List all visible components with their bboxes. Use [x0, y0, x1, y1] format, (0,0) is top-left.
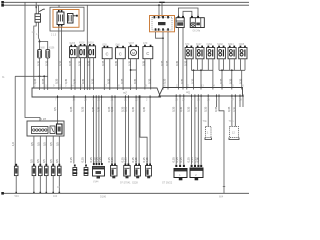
coil S side — [68, 14, 74, 24]
svg-text:0,35: 0,35 — [148, 78, 152, 84]
coil stub 6 — [218, 59, 220, 71]
arrow on wire — [35, 7, 37, 10]
svg-text:0,35: 0,35 — [87, 60, 91, 66]
svg-text:0,35: 0,35 — [114, 60, 118, 66]
wire bus15 drop x88 — [86, 5, 88, 90]
svg-text:0,5: 0,5 — [36, 159, 40, 163]
wire S2 down — [33, 176, 35, 194]
svg-text:C: C — [106, 52, 109, 57]
svg-text:0,35: 0,35 — [81, 157, 85, 163]
wire drop to J — [161, 2, 163, 17]
terminal 30 — [1, 1, 4, 4]
control unit dashed — [152, 17, 172, 30]
wire left drop — [14, 76, 16, 166]
wire bus2 drop b — [231, 70, 233, 89]
svg-text:12: 12 — [232, 131, 236, 135]
svg-text:0,35: 0,35 — [203, 106, 207, 112]
relay in A97 — [57, 124, 63, 134]
svg-text:0,35: 0,35 — [187, 106, 191, 112]
svg-text:0,35: 0,35 — [131, 106, 135, 112]
connector strip in A97 — [32, 127, 49, 134]
wire below fuse to injector dot — [38, 22, 41, 41]
wire plug to B1 — [73, 95, 75, 163]
sensor B3 — [93, 167, 105, 177]
svg-text:0,35: 0,35 — [33, 78, 37, 84]
svg-text:0,35: 0,35 — [69, 157, 73, 163]
svg-text:0,35: 0,35 — [77, 60, 81, 66]
bus 30 (upper supply rail) — [2, 1, 249, 3]
wire A97 out 1 — [33, 136, 35, 166]
svg-text:0,35: 0,35 — [45, 60, 49, 66]
wire fuse feed right — [38, 5, 40, 14]
wire G28 b — [109, 59, 111, 90]
wires plug to B4 — [111, 95, 113, 163]
node bus1 a — [193, 69, 195, 71]
wire G28 a — [103, 59, 105, 90]
svg-text:0,5: 0,5 — [53, 107, 57, 111]
svg-text:G79: G79 — [143, 43, 148, 45]
wire fuse feed left — [35, 2, 37, 14]
svg-text:97-27041 S228: 97-27041 S228 — [120, 182, 138, 185]
label J — [158, 22, 166, 25]
connector T3b — [230, 127, 239, 138]
svg-text:0,35: 0,35 — [41, 78, 45, 84]
wire drop to J 2 — [158, 5, 160, 17]
wire coil1 left long — [186, 59, 188, 90]
svg-text:0,35: 0,35 — [91, 106, 95, 112]
wire bus2 drop c — [241, 70, 243, 89]
wire plug to T3a — [207, 94, 209, 126]
ignition coil N127 — [196, 48, 204, 59]
svg-text:0,35: 0,35 — [142, 60, 146, 66]
svg-text:0,35: 0,35 — [163, 78, 167, 84]
wire plug to A97 relay — [57, 95, 59, 124]
ignition coil N292 — [217, 48, 225, 59]
svg-text:0,35: 0,35 — [184, 60, 188, 66]
wire A97 out 2 — [39, 136, 41, 166]
sensor G40 — [115, 48, 125, 59]
node rail a — [39, 75, 41, 77]
wire S1 down — [15, 176, 17, 194]
stub pair a — [216, 94, 218, 107]
wire rail drop — [43, 76, 45, 90]
wire link outer — [178, 8, 198, 14]
wire V157 bridge — [131, 69, 137, 71]
frame orange J623 — [150, 16, 175, 32]
svg-text:≡ξ: ≡ξ — [186, 91, 190, 95]
valve N316 — [88, 46, 95, 58]
fuse S — [35, 14, 41, 22]
coil stub 8 — [229, 59, 231, 71]
pin stubs J271 — [58, 10, 60, 12]
wire from relay down a — [58, 27, 60, 90]
svg-text:0,35: 0,35 — [107, 78, 111, 84]
svg-text:0,35: 0,35 — [81, 78, 85, 84]
svg-text:N156: N156 — [49, 48, 55, 50]
svg-text:0,35: 0,35 — [175, 60, 179, 66]
fuse S1 bottom — [14, 166, 18, 175]
plug B2 — [84, 168, 88, 176]
svg-text:0,35: 0,35 — [110, 106, 114, 112]
injector N80 — [38, 50, 42, 58]
wire A97 out 5 — [58, 136, 60, 166]
wires plug to G66 — [191, 94, 193, 164]
svg-text:0,5: 0,5 — [55, 142, 59, 146]
svg-text:0,35: 0,35 — [239, 78, 243, 84]
wire J17 to plug b — [182, 28, 184, 90]
rail 31 left — [15, 75, 48, 77]
wire bus1 drop a — [193, 70, 195, 89]
svg-text:0,35: 0,35 — [145, 157, 149, 163]
svg-text:0,35: 0,35 — [101, 60, 105, 66]
svg-text:0,35: 0,35 — [124, 157, 128, 163]
svg-text:M: M — [132, 51, 135, 55]
svg-text:N318: N318 — [79, 43, 85, 45]
coil stub 11 — [244, 59, 246, 71]
svg-text:0,5: 0,5 — [36, 142, 40, 146]
stub bus15 into box — [58, 5, 60, 7]
wires plug to G61 — [175, 94, 177, 164]
plug B1 — [73, 168, 77, 176]
valve N208 — [79, 46, 87, 58]
svg-text:0,5: 0,5 — [42, 159, 46, 163]
node bus2 a — [221, 69, 223, 71]
relay J271 — [57, 12, 64, 25]
svg-text:G28: G28 — [102, 44, 107, 46]
wire V157 a — [130, 59, 132, 90]
coil stub 10 — [239, 59, 241, 71]
svg-text:0,35: 0,35 — [142, 106, 146, 112]
svg-text:0,35: 0,35 — [64, 78, 68, 84]
wire injector2 return — [47, 58, 49, 90]
svg-text:0,5: 0,5 — [49, 159, 53, 163]
svg-text:T3m: T3m — [229, 120, 234, 123]
svg-text:C: C — [146, 51, 149, 56]
svg-text:0,35: 0,35 — [127, 60, 131, 66]
svg-text:0,35: 0,35 — [179, 157, 183, 163]
wire S3 down — [39, 176, 41, 194]
svg-text:0,35: 0,35 — [69, 106, 73, 112]
wire x25 join — [24, 75, 26, 77]
tick ground x224 — [223, 186, 225, 188]
svg-text:504: 504 — [15, 195, 20, 198]
svg-text:0,35: 0,35 — [58, 60, 62, 66]
svg-text:0,35: 0,35 — [55, 78, 59, 84]
node under J — [162, 37, 164, 39]
svg-text:0,35: 0,35 — [180, 78, 184, 84]
wire A97 feed — [25, 76, 40, 121]
svg-text:0,35: 0,35 — [90, 78, 94, 84]
wire J pin4 to plug — [167, 32, 169, 90]
svg-text:0,35: 0,35 — [68, 60, 72, 66]
wire below fuse to connector pin — [34, 22, 36, 88]
node rail b — [43, 75, 45, 77]
svg-text:0,35: 0,35 — [36, 60, 40, 66]
wire S4 down — [45, 176, 47, 194]
svg-text:0,35: 0,35 — [229, 78, 233, 84]
node injector feed — [39, 41, 41, 43]
knock sensor G66 — [190, 168, 203, 178]
relay J17 — [176, 18, 184, 28]
svg-text:0,35: 0,35 — [179, 106, 183, 112]
wire bus1 drop b — [200, 70, 202, 89]
node plug pins — [73, 96, 75, 98]
wire ground long — [219, 94, 224, 193]
svg-text:0,35: 0,35 — [190, 78, 194, 84]
svg-text:0,35: 0,35 — [73, 78, 77, 84]
terminal 15 — [1, 4, 4, 7]
coil stub 3 — [201, 59, 203, 71]
fuse S4 — [45, 166, 49, 175]
ignition coil N325 — [239, 48, 247, 59]
node bus1 b — [200, 69, 202, 71]
knock sensor G61 — [174, 169, 187, 178]
svg-text:C: C — [119, 52, 122, 57]
wire bus2 drop a — [221, 70, 223, 89]
svg-text:V144: V144 — [93, 182, 99, 184]
pins top — [154, 16, 156, 18]
sensor B7 — [146, 166, 152, 177]
svg-text:0,35: 0,35 — [133, 78, 137, 84]
plug T121 right — [159, 88, 243, 97]
wire G79 a — [144, 59, 146, 90]
wires plug to B3 — [93, 95, 95, 163]
svg-text:ST 39/22: ST 39/22 — [162, 182, 173, 185]
coil stub 9 — [233, 59, 235, 71]
wire N205 a — [70, 58, 72, 90]
svg-text:N324: N324 — [228, 44, 234, 46]
wire link inner — [183, 11, 192, 14]
svg-text:0,5: 0,5 — [55, 159, 59, 163]
svg-text:0,35: 0,35 — [124, 106, 128, 112]
svg-text:0,35: 0,35 — [160, 60, 164, 66]
wire A97 out 3 — [45, 136, 47, 166]
svg-text:N316: N316 — [88, 43, 94, 45]
coil ground bus 2 — [219, 69, 245, 71]
wires plug to B6 — [135, 95, 137, 163]
svg-text:D186: D186 — [100, 196, 107, 199]
wire injector bridge — [40, 42, 48, 50]
wire J17 to plug a — [177, 28, 179, 90]
svg-text:N70: N70 — [185, 44, 190, 46]
svg-text:0,35: 0,35 — [232, 106, 236, 112]
sensor B5 — [124, 166, 131, 177]
svg-text:0,35: 0,35 — [171, 106, 175, 112]
svg-text:G6 24a: G6 24a — [193, 31, 201, 33]
svg-text:0,35: 0,35 — [110, 157, 114, 163]
wires plug to B7 — [140, 95, 147, 163]
sensor B6 — [135, 166, 141, 177]
wires plug to T3b — [231, 94, 233, 126]
svg-text:N325: N325 — [239, 44, 245, 46]
coil stub 5 — [212, 59, 214, 71]
box A97 — [27, 121, 64, 136]
stub pair b — [239, 94, 241, 107]
svg-text:N291: N291 — [207, 44, 213, 46]
wire from relay down b — [60, 27, 62, 90]
node bus15 junction — [158, 4, 160, 6]
ignition coil N291 — [207, 48, 215, 59]
pins bottom — [155, 28, 157, 30]
svg-text:G40: G40 — [115, 44, 120, 46]
box top-left outer — [50, 7, 84, 31]
wire G40 b — [122, 59, 124, 90]
connector T3a — [206, 127, 212, 138]
svg-text:0,35: 0,35 — [227, 106, 231, 112]
wire injector1 drop — [39, 42, 41, 50]
sensor G28 — [102, 48, 112, 59]
pin posts G6 — [191, 14, 193, 17]
svg-text:0,5: 0,5 — [49, 142, 53, 146]
sensor G79 — [143, 47, 153, 59]
motor V157 — [129, 47, 139, 59]
svg-text:V157: V157 — [129, 43, 135, 45]
svg-text:0,35: 0,35 — [193, 106, 197, 112]
fuse S3 — [39, 166, 43, 175]
wire N316 b — [93, 58, 95, 90]
stub right — [73, 15, 77, 17]
svg-text:N80: N80 — [41, 48, 46, 50]
svg-text:0,5: 0,5 — [42, 142, 46, 146]
svg-text:0,35: 0,35 — [214, 106, 218, 112]
svg-text:N205: N205 — [70, 43, 76, 45]
coil stub 1 — [190, 59, 192, 71]
fuse S5 — [51, 166, 55, 175]
injector N156 — [46, 50, 50, 58]
svg-text:0,35: 0,35 — [219, 78, 223, 84]
node bus2 b — [231, 69, 233, 71]
svg-text:2 1,5: 2 1,5 — [51, 35, 57, 37]
svg-text:104: 104 — [53, 195, 58, 198]
wire V157 b — [135, 59, 137, 90]
coil stub 4 — [207, 59, 209, 71]
fuse S2 — [32, 166, 36, 175]
wire S5 down — [52, 176, 54, 194]
coil ground bus 1 — [191, 69, 213, 71]
ignition coil N70 — [185, 48, 193, 59]
wire plug to B2 — [85, 95, 87, 163]
valve N205 — [70, 47, 78, 58]
svg-text:0,35: 0,35 — [81, 106, 85, 112]
coil stub 2 — [197, 59, 199, 71]
ground rail bottom — [2, 192, 249, 194]
wire injector1 return — [39, 58, 41, 90]
sub box A97 — [50, 126, 55, 134]
terminal ground — [1, 192, 4, 195]
switch arm — [39, 9, 45, 11]
ignition coil N323 — [228, 48, 236, 59]
svg-text:0,35: 0,35 — [134, 157, 138, 163]
fuse S6 — [58, 166, 62, 175]
wire N316 a — [89, 58, 91, 90]
node plug bottom — [57, 96, 59, 98]
pin posts J17 — [177, 14, 179, 17]
svg-text:0,35: 0,35 — [120, 78, 124, 84]
wire N208 b — [83, 58, 85, 90]
wire from bus30 at x25 — [24, 2, 26, 76]
svg-text:N127: N127 — [196, 44, 202, 46]
wire A97 out 4 — [52, 136, 54, 166]
svg-text:0,5: 0,5 — [30, 159, 34, 163]
svg-text:604: 604 — [219, 196, 224, 199]
wire G40 a — [116, 59, 118, 90]
svg-text:0,35: 0,35 — [165, 60, 169, 66]
coil stub 7 — [223, 59, 225, 71]
wire N208 a — [80, 58, 82, 90]
node bus30 junction — [159, 2, 164, 3]
svg-text:A 97: A 97 — [40, 117, 47, 121]
sensor B4 — [111, 166, 118, 177]
wire bus1 drop c — [212, 70, 214, 89]
bus 15 (lower supply rail) — [2, 4, 249, 6]
wire N205 b — [74, 58, 76, 90]
svg-text:0,35: 0,35 — [97, 106, 101, 112]
wire G79 b — [150, 59, 152, 90]
svg-text:≡ξ: ≡ξ — [123, 91, 127, 95]
plug T121 left — [32, 88, 161, 97]
svg-text:0,5: 0,5 — [30, 142, 34, 146]
fuel pump G6 — [190, 18, 204, 28]
wire J pin3 to plug — [162, 32, 164, 90]
svg-text:0,35: 0,35 — [196, 157, 200, 163]
wire S6 down — [58, 176, 60, 194]
svg-text:N292: N292 — [217, 44, 223, 46]
svg-text:0,35: 0,35 — [98, 157, 102, 163]
svg-text:1,0: 1,0 — [11, 142, 15, 146]
wire hook under J — [156, 32, 164, 38]
wires plug to B5 — [124, 95, 126, 163]
dashed frame orange J271 — [53, 10, 79, 28]
